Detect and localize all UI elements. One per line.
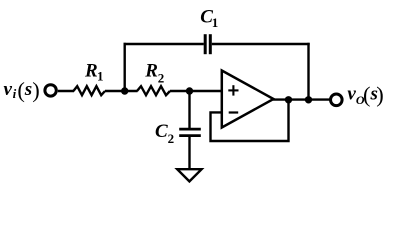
svg-text:v: v <box>4 79 13 100</box>
svg-text:): ) <box>32 77 40 102</box>
svg-text:(: ( <box>17 77 25 102</box>
op-amp plus input marking <box>228 89 238 91</box>
wire R2 to op-amp <box>170 90 222 92</box>
wire C2 branch upper <box>188 91 190 128</box>
svg-text:2: 2 <box>168 131 175 146</box>
wire top rail left <box>124 43 204 45</box>
svg-text:1: 1 <box>212 15 219 30</box>
svg-text:): ) <box>376 82 384 107</box>
wire C1 branch vertical left <box>123 43 125 91</box>
op-amp U1 <box>222 71 274 128</box>
wire C2 branch lower <box>188 137 190 170</box>
node A junction dot <box>121 87 128 94</box>
node vi input terminal <box>45 85 56 96</box>
wire feedback loop to minus input <box>211 100 289 141</box>
svg-text:(: ( <box>363 82 371 107</box>
node C junction dot (feedback tap) <box>285 96 292 103</box>
svg-text:C: C <box>155 121 168 142</box>
wire R1 to R2 <box>105 90 138 92</box>
svg-text:1: 1 <box>97 69 104 84</box>
node D junction dot (C1 tap) <box>305 96 312 103</box>
capacitor C1 <box>204 34 207 54</box>
node vo output terminal <box>331 94 343 106</box>
svg-text:i: i <box>13 86 17 101</box>
svg-text:R: R <box>144 60 158 81</box>
svg-text:R: R <box>84 60 98 81</box>
wire right drop to output <box>307 43 309 100</box>
wire top rail right <box>212 43 310 45</box>
op-amp minus input marking <box>229 111 239 113</box>
wire output rail <box>273 98 331 100</box>
capacitor C2 <box>179 128 201 131</box>
svg-text:s: s <box>24 79 32 100</box>
svg-text:2: 2 <box>158 71 165 86</box>
resistor R2 <box>137 86 170 95</box>
ground <box>177 169 201 181</box>
resistor R1 <box>73 86 105 95</box>
wire input stub <box>58 90 74 92</box>
node B junction dot <box>186 87 193 94</box>
